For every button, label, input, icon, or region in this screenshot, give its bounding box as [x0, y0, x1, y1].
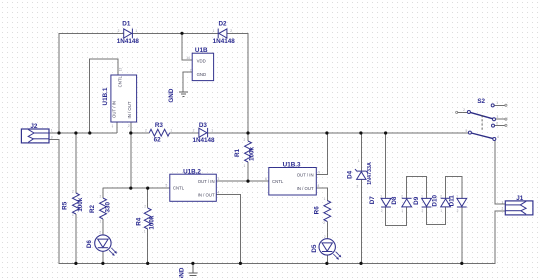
svg-text:3: 3 — [497, 115, 499, 119]
svg-text:9: 9 — [318, 170, 320, 174]
svg-text:GND: GND — [178, 267, 185, 278]
svg-text:62: 62 — [154, 137, 162, 144]
svg-text:R5: R5 — [62, 201, 69, 210]
svg-text:S2: S2 — [477, 98, 485, 105]
svg-text:GND: GND — [197, 72, 207, 77]
svg-text:2: 2 — [440, 195, 442, 199]
svg-text:D2: D2 — [218, 21, 227, 28]
svg-text:R2: R2 — [89, 204, 96, 213]
svg-text:D1: D1 — [122, 21, 131, 28]
svg-text:U1B.1: U1B.1 — [102, 87, 109, 105]
svg-text:D3: D3 — [199, 122, 208, 129]
svg-text:2: 2 — [457, 209, 459, 213]
svg-text:J1: J1 — [516, 195, 524, 202]
svg-text:R4: R4 — [135, 217, 142, 226]
svg-text:1: 1 — [51, 129, 53, 133]
svg-text:1: 1 — [112, 124, 114, 128]
svg-text:1N4733A: 1N4733A — [367, 162, 373, 185]
svg-text:1: 1 — [211, 128, 213, 132]
svg-text:2: 2 — [118, 29, 120, 33]
svg-text:D9: D9 — [413, 196, 420, 205]
svg-text:D7: D7 — [369, 196, 376, 205]
svg-text:6: 6 — [496, 121, 498, 125]
svg-text:1: 1 — [100, 219, 102, 223]
svg-text:D5: D5 — [311, 244, 318, 253]
svg-text:2: 2 — [401, 195, 403, 199]
svg-text:2: 2 — [193, 128, 195, 132]
svg-text:2: 2 — [99, 231, 101, 235]
svg-text:R3: R3 — [155, 122, 164, 129]
svg-text:1: 1 — [244, 164, 246, 168]
svg-text:2: 2 — [145, 128, 147, 132]
svg-text:IN / OUT: IN / OUT — [127, 101, 132, 118]
svg-text:5: 5 — [466, 129, 468, 133]
svg-text:2: 2 — [144, 204, 146, 208]
svg-text:14: 14 — [186, 56, 190, 60]
svg-text:2: 2 — [357, 184, 359, 188]
svg-text:2: 2 — [323, 221, 325, 225]
svg-text:2: 2 — [230, 29, 232, 33]
svg-text:1: 1 — [421, 195, 423, 199]
svg-text:1: 1 — [401, 209, 403, 213]
svg-text:2: 2 — [502, 207, 504, 211]
svg-text:IN / OUT: IN / OUT — [198, 193, 215, 198]
svg-text:1: 1 — [456, 195, 458, 199]
svg-text:2: 2 — [72, 189, 74, 193]
svg-text:R6: R6 — [314, 206, 321, 215]
svg-text:1N4148: 1N4148 — [192, 137, 215, 144]
svg-text:8: 8 — [318, 184, 320, 188]
svg-text:U1B.3: U1B.3 — [283, 161, 301, 168]
svg-text:J2: J2 — [30, 123, 38, 130]
svg-text:D8: D8 — [391, 196, 398, 205]
svg-text:2: 2 — [128, 124, 130, 128]
svg-text:R1: R1 — [234, 148, 241, 157]
svg-text:1N4148: 1N4148 — [117, 38, 140, 45]
svg-text:1: 1 — [72, 213, 74, 217]
svg-text:D11: D11 — [448, 195, 455, 207]
svg-text:OUT / IN: OUT / IN — [297, 173, 314, 178]
svg-text:2: 2 — [100, 194, 102, 198]
svg-text:CNTL: CNTL — [173, 185, 185, 190]
svg-text:D4: D4 — [346, 170, 353, 179]
svg-text:CNTL: CNTL — [272, 179, 284, 184]
svg-text:1: 1 — [440, 209, 442, 213]
svg-text:330: 330 — [104, 201, 111, 212]
svg-text:GND: GND — [168, 88, 175, 102]
svg-text:OUT / IN: OUT / IN — [112, 101, 117, 118]
svg-text:1: 1 — [213, 29, 215, 33]
svg-text:U1B.2: U1B.2 — [183, 168, 201, 175]
svg-text:2: 2 — [463, 108, 465, 112]
svg-text:100k: 100k — [77, 197, 84, 212]
svg-text:D10: D10 — [431, 195, 438, 207]
svg-text:4: 4 — [218, 190, 220, 194]
svg-text:1: 1 — [496, 101, 498, 105]
svg-text:D6: D6 — [86, 240, 93, 249]
svg-text:1: 1 — [380, 195, 382, 199]
svg-text:VDD: VDD — [197, 59, 206, 64]
svg-text:2: 2 — [381, 209, 383, 213]
svg-text:1N4148: 1N4148 — [213, 38, 236, 45]
svg-text:2: 2 — [324, 235, 326, 239]
svg-text:CNTL: CNTL — [117, 75, 122, 87]
svg-text:2: 2 — [51, 135, 53, 139]
svg-text:13: 13 — [119, 68, 123, 72]
svg-text:1: 1 — [358, 159, 360, 163]
svg-text:5: 5 — [166, 184, 168, 188]
svg-text:U1B: U1B — [195, 47, 208, 54]
svg-text:1: 1 — [502, 200, 504, 204]
svg-text:3: 3 — [218, 177, 220, 181]
svg-text:7: 7 — [190, 68, 192, 72]
svg-text:100k: 100k — [149, 215, 156, 230]
svg-text:2: 2 — [422, 209, 424, 213]
svg-text:IN / OUT: IN / OUT — [297, 186, 314, 191]
svg-text:1: 1 — [135, 29, 137, 33]
svg-text:1: 1 — [170, 128, 172, 132]
svg-text:OUT / IN: OUT / IN — [198, 179, 215, 184]
svg-text:6: 6 — [265, 177, 267, 181]
svg-text:2: 2 — [244, 138, 246, 142]
svg-text:1: 1 — [144, 229, 146, 233]
svg-text:100k: 100k — [248, 147, 255, 162]
svg-text:4: 4 — [497, 135, 499, 139]
svg-text:1: 1 — [324, 197, 326, 201]
